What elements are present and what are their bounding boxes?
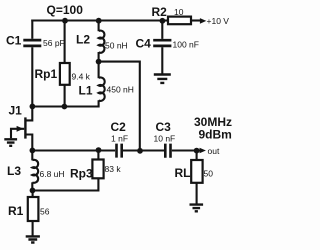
svg-text:L3: L3 bbox=[7, 164, 21, 178]
ground: J1 gate bbox=[4, 139, 17, 146]
svg-text:C4: C4 bbox=[136, 36, 152, 50]
node: L2-L1 tap bbox=[96, 59, 102, 65]
arrow: out bbox=[200, 148, 206, 154]
wire: R2 to +10V bbox=[191, 19, 200, 21]
node: RL / mid rail bbox=[194, 148, 200, 154]
wire: C4 top stem bbox=[161, 20, 163, 39]
svg-text:Q=100: Q=100 bbox=[47, 3, 84, 17]
svg-text:C1: C1 bbox=[6, 33, 22, 47]
wire: mid rail C2-C3 bbox=[123, 149, 164, 151]
svg-text:L2: L2 bbox=[76, 32, 90, 46]
wire: mid rail left bbox=[32, 149, 115, 151]
transistor Q J1 channel bar bbox=[24, 117, 26, 138]
wire: L2 top stem bbox=[98, 20, 100, 32]
inductor L1 bbox=[99, 77, 105, 100]
svg-text:1 nF: 1 nF bbox=[111, 134, 128, 144]
arrow: +10V bbox=[200, 18, 206, 24]
svg-text:50 nH: 50 nH bbox=[105, 40, 128, 50]
svg-text:Rp1: Rp1 bbox=[35, 67, 58, 81]
node: top rail / C4-R2 bbox=[160, 18, 166, 24]
wire: L3 top stem bbox=[31, 150, 33, 161]
wire: L3 bottom stem bbox=[31, 182, 33, 191]
node: Rp1 / y106 rail bbox=[62, 104, 68, 110]
svg-text:6.8 uH: 6.8 uH bbox=[40, 169, 65, 179]
wire: drain tap rail y106 bbox=[31, 100, 98, 106]
wire: R2 feed bbox=[162, 19, 168, 21]
ground: RL bbox=[190, 205, 204, 212]
capacitor C4 bbox=[153, 40, 171, 46]
resistor R2 bbox=[168, 17, 191, 25]
node: top rail / Rp1 bbox=[62, 18, 68, 24]
svg-text:C3: C3 bbox=[156, 120, 172, 134]
capacitor C2 bbox=[117, 144, 122, 158]
wire: C4 bottom stem bbox=[161, 47, 163, 73]
ground: R1 bbox=[26, 236, 40, 242]
capacitor C3 bbox=[165, 144, 170, 158]
resistor Rp3 bbox=[92, 160, 103, 179]
node: L3-R1 / bottom rail bbox=[30, 188, 36, 194]
svg-text:out: out bbox=[208, 146, 220, 156]
svg-text:Rp3: Rp3 bbox=[70, 167, 93, 181]
wire: RL bottom stem bbox=[196, 183, 198, 204]
wire: Rp1 bottom stem bbox=[64, 85, 66, 108]
wire: mid rail C3 to out bbox=[172, 149, 200, 151]
node: source / mid rail bbox=[30, 148, 36, 154]
svg-text:9.4 k: 9.4 k bbox=[72, 71, 91, 81]
svg-text:9dBm: 9dBm bbox=[199, 128, 232, 142]
inductor L3 bbox=[32, 160, 38, 183]
wire: Rp3 bottom + bottom rail bbox=[31, 178, 98, 190]
arrow: J1 gate bbox=[17, 126, 24, 132]
node: Rp3 / mid rail bbox=[96, 147, 102, 153]
svg-text:RL: RL bbox=[175, 166, 191, 180]
node: top rail / L2 bbox=[96, 18, 102, 24]
wire: Rp3 top stem bbox=[97, 151, 99, 160]
inductor L2 bbox=[99, 31, 105, 53]
resistor R1 bbox=[28, 197, 39, 221]
wire: top rail bbox=[31, 19, 162, 21]
svg-text:83 k: 83 k bbox=[105, 164, 122, 174]
wire: L2-L1 mid stem bbox=[98, 52, 100, 78]
svg-text:56 pF: 56 pF bbox=[43, 38, 65, 48]
svg-text:+10 V: +10 V bbox=[207, 16, 230, 26]
wire: left branch C1 to J1 drain bbox=[27, 47, 33, 120]
node: drain / y106 rail bbox=[30, 104, 36, 110]
wire: RL top stem bbox=[196, 151, 198, 161]
svg-text:R2: R2 bbox=[152, 5, 168, 19]
svg-text:R1: R1 bbox=[8, 204, 24, 218]
svg-text:L1: L1 bbox=[79, 83, 93, 97]
node: tap / mid rail bbox=[137, 148, 143, 154]
svg-text:50: 50 bbox=[204, 168, 214, 178]
wire: J1 gate lead bbox=[11, 128, 24, 138]
wire: Rp1 top stem bbox=[64, 20, 66, 64]
wire: R1 top stem bbox=[32, 191, 34, 198]
wire: tap to C2/C3 rail bbox=[99, 62, 140, 152]
svg-text:56: 56 bbox=[40, 207, 50, 217]
wire: J1 source lead bbox=[27, 135, 33, 151]
wire: R1 bottom stem bbox=[32, 221, 34, 236]
wire: left branch top (rail to C1) bbox=[31, 20, 33, 39]
resistor Rp1 bbox=[60, 63, 70, 85]
svg-text:450 nH: 450 nH bbox=[107, 84, 134, 94]
svg-text:C2: C2 bbox=[111, 120, 127, 134]
svg-text:10: 10 bbox=[174, 7, 184, 17]
svg-text:10 nF: 10 nF bbox=[154, 134, 176, 144]
capacitor C1 bbox=[23, 40, 41, 46]
svg-text:100 nF: 100 nF bbox=[173, 39, 199, 49]
ground: C4 bbox=[154, 75, 171, 83]
resistor RL bbox=[191, 160, 202, 183]
svg-text:J1: J1 bbox=[9, 103, 23, 117]
